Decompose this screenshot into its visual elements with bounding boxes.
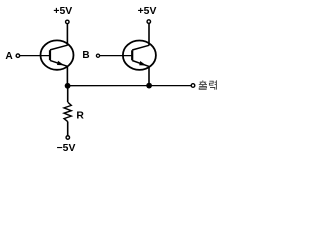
glyph 력: [209, 81, 213, 85]
wire: Q1 emitter lead: [66, 66, 68, 86]
wire: resistor top lead: [67, 86, 69, 102]
transistor Q2: [123, 41, 156, 70]
svg-text:−5V: −5V: [57, 143, 76, 154]
terminal +5V left: [66, 20, 70, 24]
svg-text:A: A: [5, 51, 13, 62]
wire: B base wire: [100, 55, 132, 57]
wire: +5V right collector lead: [148, 24, 150, 46]
terminal A: [16, 54, 20, 58]
wire: Q2 emitter lead: [148, 66, 150, 85]
resistor R: [64, 102, 71, 121]
terminal output: [191, 84, 195, 88]
svg-text:+5V: +5V: [53, 6, 72, 17]
terminal +5V right: [147, 20, 151, 24]
wire: A base wire: [20, 55, 49, 57]
wire: common emitter bus: [68, 85, 192, 87]
wire: resistor bottom lead: [67, 122, 69, 136]
wire: +5V left collector lead: [66, 24, 68, 46]
terminal -5V: [66, 136, 70, 140]
svg-text:+5V: +5V: [138, 6, 157, 17]
svg-text:B: B: [82, 50, 89, 61]
glyph 출: [202, 80, 204, 81]
junction dot left: [65, 83, 71, 89]
junction dot right: [146, 83, 152, 89]
transistor Q1: [41, 40, 74, 69]
label output (Korean 출력): [199, 80, 217, 89]
svg-text:R: R: [76, 110, 84, 121]
terminal B: [96, 54, 99, 57]
